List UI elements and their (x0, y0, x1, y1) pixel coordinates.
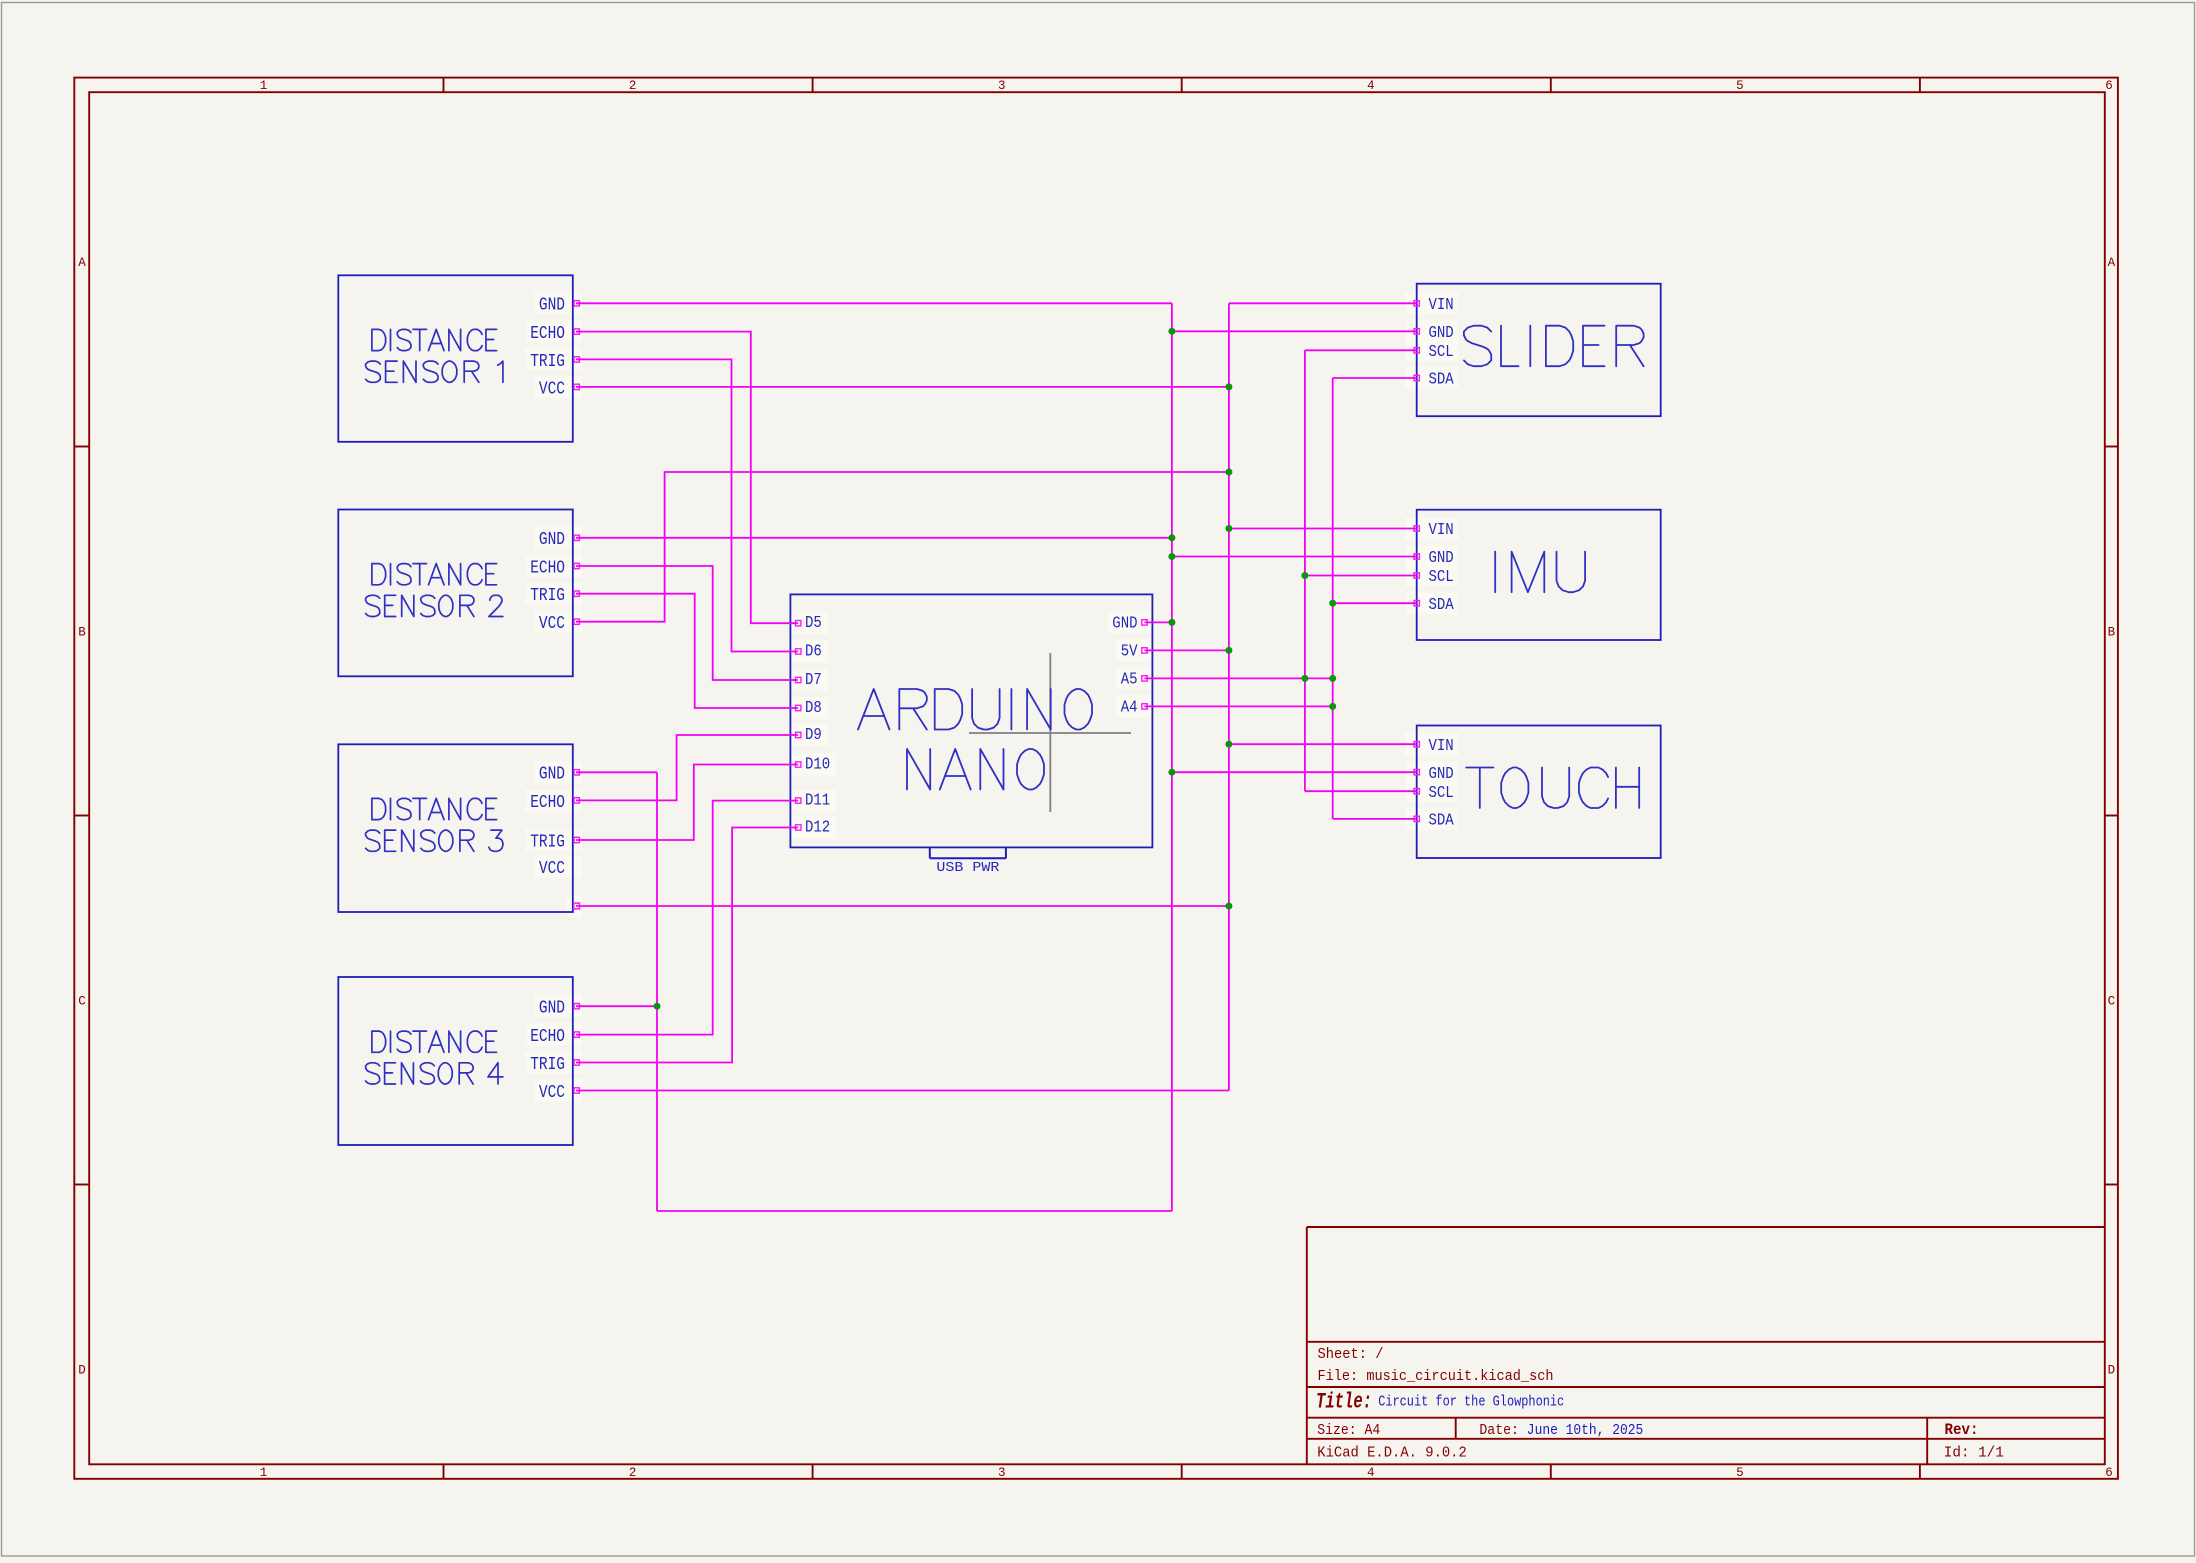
svg-text:D6: D6 (805, 642, 822, 661)
svg-text:D7: D7 (805, 670, 822, 689)
svg-text:GND: GND (539, 528, 565, 550)
svg-text:GND: GND (539, 294, 565, 316)
wire ECHO3 to D9 (576, 735, 798, 800)
svg-text:VIN: VIN (1429, 295, 1454, 314)
svg-text:3: 3 (998, 1466, 1006, 1480)
svg-text:Date:: Date: (1479, 1422, 1519, 1439)
wire GND arduino (1145, 621, 1172, 623)
wire SCL trunk3 (1304, 350, 1306, 791)
svg-text:ECHO: ECHO (530, 322, 565, 344)
wire VIN sensor3 VCC (576, 905, 1229, 907)
wire VIN sensor2 VCC (576, 472, 1229, 622)
wire SCL to SLIDER (1305, 349, 1417, 351)
svg-text:4: 4 (1367, 1466, 1375, 1480)
svg-text:6: 6 (2105, 1466, 2113, 1480)
module IMU (1405, 510, 1661, 640)
svg-text:1: 1 (260, 79, 268, 93)
distance sensor 4 (338, 977, 582, 1145)
svg-text:TRIG: TRIG (530, 350, 565, 372)
wire TRIG1 to D6 (576, 359, 798, 651)
svg-text:A: A (2108, 256, 2116, 270)
svg-text:4: 4 (1367, 79, 1375, 93)
svg-text:TRIG: TRIG (530, 584, 565, 606)
frame column labels 1-6 (260, 79, 2113, 1480)
svg-text:GND: GND (1429, 548, 1454, 567)
svg-text:B: B (2108, 625, 2116, 639)
wire GND sensor1 to trunk1 (576, 302, 1172, 304)
module SLIDER (1405, 284, 1661, 417)
svg-text:GND: GND (539, 763, 565, 785)
wire ECHO4 to D11 (576, 801, 798, 1035)
svg-text:ECHO: ECHO (530, 556, 565, 578)
wire VIN to IMU (1229, 528, 1417, 530)
distance sensor 2 (338, 510, 582, 677)
svg-text:A5: A5 (1121, 669, 1138, 688)
wire GND sensor2 (576, 537, 1172, 539)
svg-text:D5: D5 (805, 613, 822, 632)
wire GND left trunk (656, 772, 658, 1211)
svg-text:GND: GND (1429, 323, 1454, 342)
wire GND bottom link (657, 1210, 1172, 1212)
wire TRIG2 to D8 (576, 594, 798, 708)
svg-text:2: 2 (629, 1466, 637, 1480)
svg-text:ECHO: ECHO (530, 791, 565, 813)
wire VIN sensor4 VCC (576, 1090, 1229, 1092)
svg-text:File: music_circuit.kicad_sch: File: music_circuit.kicad_sch (1318, 1368, 1554, 1385)
title block frame (1307, 1227, 2105, 1464)
svg-text:TRIG: TRIG (530, 1053, 565, 1075)
wire GND trunk1 (1171, 303, 1173, 1211)
wire GND to SLIDER (1172, 330, 1417, 332)
svg-text:VCC: VCC (539, 1081, 565, 1103)
wire SCL arduino A5 (1145, 677, 1333, 679)
svg-text:TRIG: TRIG (530, 830, 565, 852)
wire VIN to SLIDER (1229, 302, 1417, 304)
svg-text:D8: D8 (805, 698, 822, 717)
wire GND sensor3 (576, 771, 657, 773)
distance sensor 3 (338, 744, 582, 917)
svg-text:A: A (78, 256, 86, 270)
svg-text:5: 5 (1736, 79, 1744, 93)
svg-text:6: 6 (2105, 79, 2113, 93)
svg-text:Sheet: /: Sheet: / (1318, 1346, 1384, 1363)
wire ECHO1 to D5 (576, 332, 798, 624)
svg-text:VCC: VCC (539, 857, 565, 879)
svg-text:VCC: VCC (539, 612, 565, 634)
frame row labels A-D (78, 256, 2115, 1377)
svg-text:5: 5 (1736, 1466, 1744, 1480)
svg-text:SCL: SCL (1429, 567, 1454, 586)
svg-text:C: C (2108, 994, 2116, 1008)
svg-text:D: D (2108, 1364, 2116, 1378)
module TOUCH (1405, 726, 1661, 859)
wire junctions (654, 328, 1337, 1010)
frame column ticks (444, 78, 1920, 1479)
svg-text:VCC: VCC (539, 377, 565, 399)
wire VIN sensor1 VCC (576, 386, 1229, 388)
svg-text:Size: A4: Size: A4 (1317, 1422, 1380, 1439)
svg-text:SDA: SDA (1429, 811, 1454, 830)
wire SDA to IMU (1333, 602, 1417, 604)
svg-text:C: C (78, 994, 86, 1008)
arduino nano (790, 594, 1152, 876)
svg-text:USB PWR: USB PWR (936, 861, 999, 876)
svg-text:June 10th, 2025: June 10th, 2025 (1527, 1422, 1644, 1439)
wire SCL to TOUCH (1305, 790, 1417, 792)
svg-text:D10: D10 (805, 755, 830, 774)
svg-text:GND: GND (1429, 764, 1454, 783)
svg-text:KiCad E.D.A. 9.0.2: KiCad E.D.A. 9.0.2 (1317, 1445, 1467, 1462)
svg-text:B: B (78, 625, 86, 639)
wire TRIG4 to D12 (576, 828, 798, 1063)
wire ECHO2 to D7 (576, 566, 798, 680)
svg-text:A4: A4 (1121, 697, 1138, 716)
svg-text:ECHO: ECHO (530, 1025, 565, 1047)
wire SDA arduino A4 (1145, 705, 1333, 707)
svg-text:GND: GND (539, 997, 565, 1019)
svg-text:D12: D12 (805, 818, 830, 837)
svg-text:SCL: SCL (1429, 783, 1454, 802)
wire GND to TOUCH (1172, 771, 1417, 773)
frame row ticks (74, 447, 2118, 1185)
svg-text:D9: D9 (805, 725, 822, 744)
svg-text:D11: D11 (805, 791, 830, 810)
wire GND sensor4 (576, 1005, 657, 1007)
svg-text:SDA: SDA (1429, 370, 1454, 389)
svg-text:Title:: Title: (1316, 1390, 1372, 1415)
wire VIN trunk2 (1228, 303, 1230, 1090)
svg-text:GND: GND (1112, 613, 1137, 632)
svg-text:SDA: SDA (1429, 595, 1454, 614)
svg-text:Circuit for the Glowphonic: Circuit for the Glowphonic (1378, 1394, 1564, 1411)
wire SDA trunk4 (1332, 378, 1334, 819)
wire SCL to IMU (1305, 575, 1417, 577)
svg-text:Rev:: Rev: (1945, 1421, 1979, 1439)
svg-text:Id: 1/1: Id: 1/1 (1944, 1445, 2004, 1462)
svg-text:D: D (78, 1364, 86, 1378)
svg-text:2: 2 (629, 79, 637, 93)
svg-text:3: 3 (998, 79, 1006, 93)
svg-text:SCL: SCL (1429, 342, 1454, 361)
svg-text:VIN: VIN (1429, 736, 1454, 755)
wire TRIG3 to D10 (576, 765, 798, 841)
distance sensor 1 (338, 275, 582, 442)
svg-text:1: 1 (260, 1466, 268, 1480)
wire GND to IMU (1172, 556, 1417, 558)
svg-text:5V: 5V (1121, 641, 1138, 660)
wire VIN arduino 5V (1145, 649, 1229, 651)
svg-text:VIN: VIN (1429, 520, 1454, 539)
wire SDA to TOUCH (1333, 818, 1417, 820)
wire VIN to TOUCH (1229, 743, 1417, 745)
wire SDA to SLIDER (1333, 377, 1417, 379)
